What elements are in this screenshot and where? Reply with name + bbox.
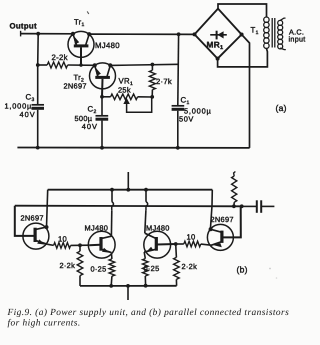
wire R10 right to Q4 emitter <box>201 244 211 245</box>
transistor Tr2 emitter diagonal <box>95 65 98 76</box>
svg-text:2N697: 2N697 <box>64 82 87 91</box>
svg-text:2N697: 2N697 <box>211 215 234 224</box>
svg-text:10: 10 <box>187 233 196 242</box>
svg-text:2·7k: 2·7k <box>156 77 172 86</box>
wire rail2 b <box>15 205 242 208</box>
transistor Q2 emitter diagonal <box>101 249 111 252</box>
wire Tr2 base lead <box>101 79 104 97</box>
svg-text:input: input <box>289 35 306 44</box>
node rail1 left MJ480 junction <box>110 188 114 192</box>
wire bridge top to transformer <box>218 4 267 17</box>
wire rail2 to Q1 base <box>15 206 34 236</box>
transistor Q1 circle <box>23 223 49 249</box>
node bottom rail left junction <box>109 284 113 288</box>
wire bottom rail a <box>17 147 249 149</box>
transformer T1 secondary top hook <box>280 18 285 20</box>
svg-text:10: 10 <box>58 234 67 243</box>
wire Q4 base link <box>222 206 241 237</box>
transistor Q4 base bar <box>220 231 223 243</box>
wire bridge right to bottom rail <box>242 35 250 148</box>
svg-text:MJ480: MJ480 <box>95 41 120 50</box>
wire C2 bottom lead <box>101 121 103 148</box>
wire bias resistor top lead <box>234 172 236 177</box>
transistor Q2 base bar <box>99 237 102 251</box>
node Tr1 base junction <box>79 63 82 66</box>
node rail2 right end junction <box>240 204 244 208</box>
capacitor coupling plate right <box>260 200 262 213</box>
capacitor coupling plate left <box>256 200 258 213</box>
svg-text:2·2k: 2·2k <box>182 262 198 271</box>
potentiometer VR1 body <box>111 94 138 100</box>
transistor Q3 circle <box>144 231 171 258</box>
capacitor C3 plate top <box>32 104 45 106</box>
wire VR1 right lead <box>138 96 153 98</box>
svg-text:0·25: 0·25 <box>144 264 160 273</box>
transformer T1 secondary winding <box>278 20 283 25</box>
svg-text:40V: 40V <box>82 122 98 131</box>
transistor Tr1 base bar <box>74 44 89 47</box>
wire cap link right <box>261 205 274 207</box>
node C3 bottom junction <box>36 146 40 150</box>
wire bias resistor bottom lead <box>233 202 235 206</box>
wire cap link left <box>242 205 256 207</box>
transistor Q1 base bar <box>33 228 36 242</box>
node rail1 centre junction <box>126 188 130 192</box>
transistor Q3 emitter arrow <box>146 247 154 252</box>
wire Tr1 base lead <box>80 47 82 65</box>
resistor 0.25 left <box>109 259 115 276</box>
node raw rail junction <box>177 32 181 36</box>
wire C2 top lead <box>101 97 103 115</box>
node rail1 right MJ480 junction <box>144 188 148 192</box>
wire Q3 collector vertical <box>145 210 146 233</box>
resistor R10 right <box>184 241 201 247</box>
svg-text:MJ480: MJ480 <box>146 223 170 232</box>
transistor Tr2 base bar <box>95 76 110 79</box>
svg-text:1,000µ: 1,000µ <box>5 101 33 110</box>
resistor 2.2k right <box>174 257 180 279</box>
svg-text:MJ480: MJ480 <box>85 223 109 232</box>
transformer T1 primary winding <box>264 17 269 22</box>
node left base node <box>78 243 82 247</box>
node bottom rail right junction <box>144 284 148 288</box>
svg-text:2·2k: 2·2k <box>60 261 76 270</box>
wire rail1 centre stub <box>127 172 129 190</box>
transformer T1 secondary bottom hook <box>280 48 286 50</box>
node bottom rail centre junction <box>126 284 130 288</box>
wire rail1 to Q4 collector <box>210 190 212 230</box>
node Tr2 emitter joint <box>93 63 97 67</box>
node VR1 right junction <box>150 95 154 99</box>
wire 2.2k left bottom lead <box>79 276 81 286</box>
resistor bias top right <box>232 176 237 202</box>
transistor Q4 emitter diagonal <box>211 242 222 246</box>
resistor 2.2k left <box>77 251 83 275</box>
wire 0.25 right bottom lead <box>144 276 146 286</box>
node bridge left vertex <box>193 32 197 36</box>
svg-text:(a): (a) <box>276 103 287 113</box>
wire 2-7k top lead <box>151 65 153 71</box>
wire Q2 collector hop <box>112 202 114 210</box>
node Tr2 collector joint <box>108 63 112 67</box>
wire R10 right left lead <box>176 243 184 245</box>
node C2 bottom junction <box>100 146 104 150</box>
wire bridge bottom link <box>218 48 268 67</box>
svg-text:2N697: 2N697 <box>21 214 44 223</box>
wire 2.2k left top lead <box>79 245 81 251</box>
transistor Q3 base bar <box>155 237 158 251</box>
wire raw rail vertical <box>177 34 180 105</box>
transistor Q2 collector diagonal <box>101 236 111 238</box>
wire C3 bottom lead <box>37 110 39 148</box>
wire output rail left <box>21 33 74 35</box>
svg-text:Fig.9. (a) Power supply unit,: Fig.9. (a) Power supply unit, and (b) pa… <box>7 308 290 318</box>
transistor Q4 circle <box>207 224 233 250</box>
transistor Q3 collector diagonal <box>145 233 157 238</box>
capacitor C1 plate bottom <box>172 108 185 111</box>
speck near Tr1 <box>87 11 89 14</box>
wire VR1 wiper link <box>127 97 152 112</box>
wire 2.2k right bottom lead <box>175 279 177 285</box>
wire Q3 base lead <box>157 243 176 246</box>
capacitor C1 plate top <box>172 105 185 107</box>
capacitor C3 plate bottom <box>32 107 45 110</box>
transformer T1 core <box>271 18 273 48</box>
node rail2 resistor junction <box>232 204 236 208</box>
node bridge bottom vertex <box>216 57 220 61</box>
transistor Q4 emitter arrow <box>213 243 222 247</box>
wire C3 top lead <box>37 65 39 104</box>
wire Q2 base lead <box>89 244 100 246</box>
resistor 2-7k <box>149 70 155 89</box>
speck right mid 2 <box>276 277 278 279</box>
svg-text:0·25: 0·25 <box>91 264 107 273</box>
transistor Tr1 circle <box>68 31 94 57</box>
transistor Tr2 collector diagonal <box>107 65 110 76</box>
svg-text:50V: 50V <box>179 114 194 123</box>
wire Q2 collector vertical <box>110 210 112 236</box>
potentiometer VR1 wiper arrow <box>124 99 128 104</box>
wire output rail right of Tr1 <box>89 33 194 35</box>
wire rail1 to Q1 collector <box>47 190 48 227</box>
node Q4 collector joint <box>209 227 213 231</box>
transistor Q3 emitter diagonal <box>144 249 156 252</box>
diode MR1 cathode bar <box>216 31 218 40</box>
transistor Q2 emitter arrow <box>102 248 110 253</box>
diode MR1 lead <box>210 34 227 36</box>
node Q1 collector joint <box>45 225 49 229</box>
svg-text:for high currents.: for high currents. <box>8 319 81 329</box>
speck right mid <box>269 268 271 270</box>
transistor Q4 collector diagonal <box>210 229 222 232</box>
diode MR1 triangle <box>217 31 223 38</box>
svg-text:(b): (b) <box>237 265 248 275</box>
wire C1 bottom lead <box>177 111 179 148</box>
rectifier MR1 diamond <box>195 9 242 59</box>
svg-text:Output: Output <box>10 22 37 31</box>
wire left vertical upper <box>37 34 40 65</box>
capacitor C2 plate bottom <box>96 118 109 121</box>
node bridge right vertex <box>240 33 244 37</box>
wire 2-7k bottom lead <box>151 90 153 97</box>
node Tr1 emitter joint <box>71 32 75 36</box>
wire 0.25 left bottom lead <box>110 276 113 286</box>
transistor Tr1 collector diagonal <box>86 34 90 45</box>
transistor Q2 circle <box>88 231 115 258</box>
wire R10 left to base node <box>71 244 90 246</box>
node Tr2 base VR1 junction <box>100 95 104 99</box>
wire rail1 b <box>48 189 213 191</box>
svg-text:25k: 25k <box>118 85 131 94</box>
wire Q1 emitter lead <box>48 244 54 245</box>
node 2-7k top junction <box>151 63 155 67</box>
wire bottom rail b <box>80 285 177 287</box>
wire bottom centre stub <box>127 286 129 300</box>
wire 2-2k left lead <box>38 64 47 66</box>
resistor 0.25 right <box>143 259 149 276</box>
transistor Q1 emitter diagonal <box>35 240 48 244</box>
transistor Tr2 emitter arrow <box>95 67 101 76</box>
node output junction <box>36 32 40 36</box>
wire 2-2k right lead <box>68 64 95 66</box>
capacitor C2 plate top <box>96 115 109 117</box>
transistor Tr2 circle <box>90 63 116 89</box>
transistor Tr1 emitter diagonal <box>73 34 77 45</box>
wire VR1 left lead <box>102 96 111 98</box>
resistor R10 left <box>54 243 71 249</box>
wire Q3 collector hop <box>146 202 148 210</box>
node right base node <box>174 242 178 246</box>
wire Q3 emitter vertical <box>144 252 145 259</box>
node 2-2k left junction <box>36 63 40 67</box>
transistor Q1 collector diagonal <box>35 227 46 230</box>
wire Tr2 collector rail <box>110 64 178 65</box>
output terminal tick <box>20 31 22 37</box>
wire Q2 emitter vertical <box>110 253 113 259</box>
transistor Tr1 emitter arrow <box>73 35 79 44</box>
wire 2.2k right top lead <box>175 244 178 257</box>
resistor 2-2k <box>47 62 67 68</box>
node Tr1 collector joint <box>87 32 91 36</box>
svg-text:40V: 40V <box>20 110 36 119</box>
transistor Q1 emitter arrow <box>37 239 45 244</box>
svg-text:2-2k: 2-2k <box>52 53 68 62</box>
node C1 bottom junction <box>176 146 180 150</box>
